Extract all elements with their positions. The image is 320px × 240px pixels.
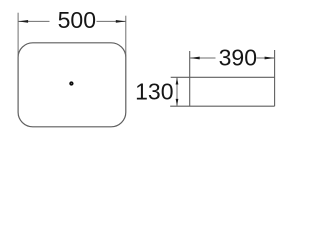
side view left edge with upward extension	[189, 51, 191, 106]
arrow down (130)	[176, 99, 179, 106]
svg-text:500: 500	[58, 7, 96, 33]
svg-text:390: 390	[219, 45, 257, 71]
drain hole dot	[69, 81, 73, 85]
arrow right (500)	[116, 20, 126, 23]
dimension line 500 right segment	[97, 20, 126, 22]
dimension line 130 vertical	[176, 78, 178, 106]
svg-text:130: 130	[135, 79, 173, 105]
arrow up (130)	[176, 78, 179, 85]
side view bottom edge with left extension	[170, 105, 274, 107]
extension line right (500)	[125, 16, 127, 57]
dimension line 500 left segment	[18, 20, 49, 22]
dimension line 390 right segment	[257, 57, 275, 59]
side view top edge with left extension	[171, 76, 275, 78]
basin top view outline	[18, 43, 126, 127]
extension line left (500)	[17, 13, 19, 57]
dimension line 390 left segment	[190, 57, 216, 59]
arrow right (390)	[265, 57, 275, 60]
arrow left (500)	[18, 20, 28, 23]
side view right edge with upward extension	[274, 50, 276, 106]
arrow left (390)	[190, 57, 200, 60]
